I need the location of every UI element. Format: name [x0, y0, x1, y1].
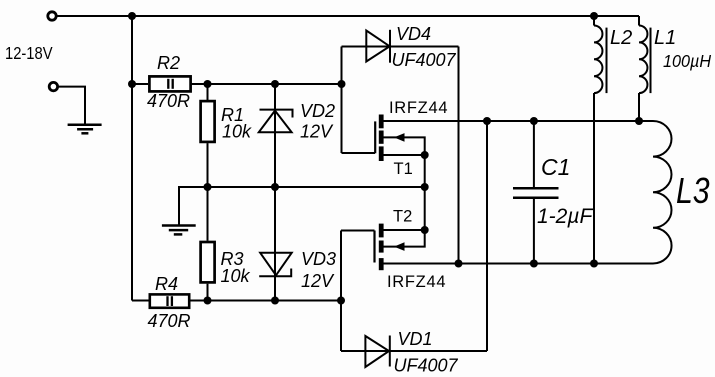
node T2 source: [421, 226, 429, 234]
terminal - input: [49, 82, 57, 90]
zener diode VD2: [259, 110, 293, 133]
svg-text:T2: T2: [393, 208, 412, 226]
wire T1 gate lead: [342, 152, 376, 154]
wire T2 body line: [383, 230, 425, 247]
wire C1 vertical: [533, 121, 535, 188]
node gnd sources: [421, 183, 429, 191]
svg-text:UF4007: UF4007: [394, 356, 459, 376]
node drain2 VD4: [455, 260, 463, 268]
node T1 source: [421, 151, 429, 159]
svg-text:1-2µF: 1-2µF: [537, 205, 593, 228]
node rail2 gate: [338, 80, 346, 88]
svg-text:L1: L1: [654, 27, 676, 49]
terminal + input: [48, 12, 56, 20]
svg-text:UF4007: UF4007: [392, 50, 457, 70]
wire ground line: [179, 187, 425, 226]
svg-text:470R: 470R: [148, 311, 191, 331]
node rail2 left: [128, 80, 136, 88]
svg-text:VD3: VD3: [301, 249, 336, 269]
node gnd VD2: [271, 183, 279, 191]
wire VD4 to T2 drain vertical: [458, 47, 460, 264]
inductor L1: [639, 26, 651, 94]
svg-text:R4: R4: [155, 274, 178, 294]
inductor L2: [594, 26, 607, 94]
wire VD2-VD3 vertical: [274, 84, 276, 301]
node rail4 VD3: [271, 297, 279, 305]
wire VD4 horizontal: [342, 46, 459, 48]
resistor R4: [150, 294, 189, 307]
node rail4 R3: [204, 297, 212, 305]
node drain2 L2: [590, 260, 598, 268]
zener diode VD3: [259, 253, 292, 276]
diode VD1: [365, 336, 389, 368]
transistor T1 (IRFZ44 mosfet): [375, 115, 404, 162]
svg-text:470R: 470R: [147, 91, 190, 111]
node rail2 R1: [204, 80, 212, 88]
wire L1 vertical: [638, 16, 640, 26]
wire L2 vertical to T2 drain: [593, 16, 595, 26]
wire R1-R3 vertical: [207, 84, 209, 100]
resistor R2: [149, 76, 190, 91]
svg-text:IRFZ44: IRFZ44: [389, 99, 448, 117]
node drain1 C1: [530, 117, 538, 125]
wire T2 gate lead: [341, 230, 375, 232]
node rail2 VD2: [271, 80, 279, 88]
wire T2 source line: [383, 229, 425, 231]
node dots: [128, 12, 643, 305]
resistor R3: [201, 242, 215, 282]
svg-text:12V: 12V: [301, 271, 335, 291]
resistor R1: [201, 101, 215, 142]
wire T1 drain to VD1 vertical: [486, 121, 488, 351]
svg-text:R2: R2: [157, 53, 180, 73]
wire gate rail T1 (R2 to gate line): [132, 83, 148, 85]
transistor T2 (IRFZ44 mosfet): [375, 224, 405, 271]
node drain1 VD1: [483, 117, 491, 125]
svg-text:T1: T1: [394, 160, 413, 178]
node rail4 gate: [337, 297, 345, 305]
wire input terminal 2 to ground: [57, 87, 85, 125]
node top L2: [590, 12, 598, 20]
svg-text:12V: 12V: [300, 122, 334, 142]
wire sources vertical: [424, 155, 426, 230]
svg-text:C1: C1: [541, 154, 570, 180]
inductor L3: [653, 121, 672, 264]
wire T1 body line: [383, 137, 425, 155]
wire left vertical bus: [131, 16, 133, 301]
wire T1 drain line: [383, 120, 653, 122]
node drain2 C1: [530, 260, 538, 268]
diode VD4: [366, 30, 390, 63]
svg-text:L3: L3: [676, 172, 710, 212]
wire VD1 horizontal: [341, 350, 487, 352]
svg-text:12-18V: 12-18V: [5, 44, 53, 64]
node top-left: [128, 12, 136, 20]
wire T1 source line: [383, 154, 425, 156]
node gnd R1: [204, 183, 212, 191]
wire top rail: [56, 15, 639, 17]
svg-text:10k: 10k: [222, 122, 252, 142]
svg-text:L2: L2: [610, 27, 632, 49]
svg-text:VD4: VD4: [396, 24, 431, 44]
svg-text:IRFZ44: IRFZ44: [387, 273, 446, 291]
svg-text:VD1: VD1: [398, 329, 433, 349]
svg-text:100µH: 100µH: [663, 51, 712, 71]
wire T2 drain line: [383, 263, 653, 265]
svg-text:10k: 10k: [221, 266, 251, 286]
capacitor C1: [513, 188, 559, 198]
node drain1 L1: [635, 117, 643, 125]
ground (signal): [162, 226, 196, 235]
wire bottom rail: [132, 300, 149, 302]
wire T2 gate vertical: [340, 231, 342, 352]
svg-text:VD2: VD2: [300, 101, 335, 121]
ground (input): [68, 125, 102, 134]
wire T1 gate vertical: [341, 47, 343, 154]
